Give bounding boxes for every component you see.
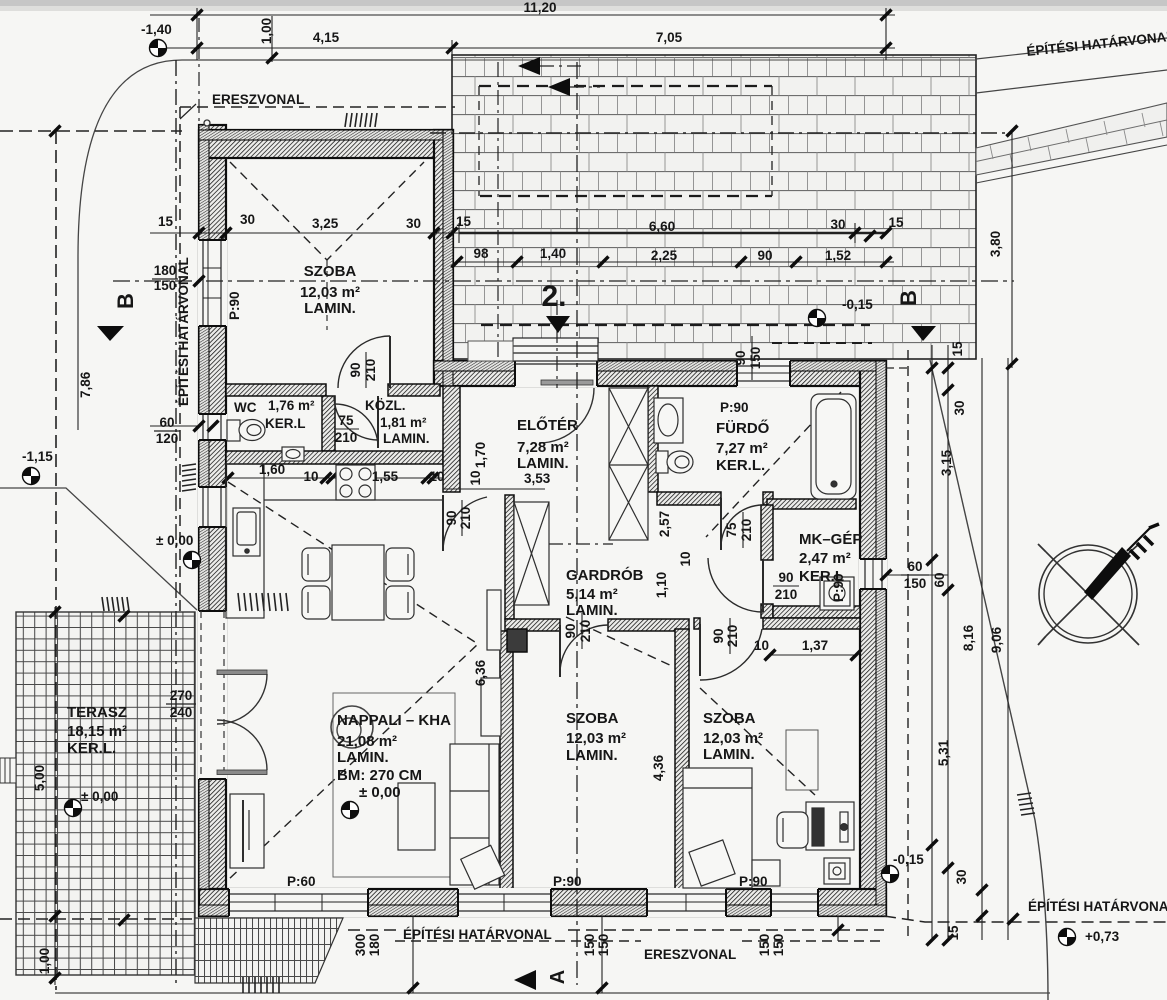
svg-text:15: 15 (946, 925, 961, 941)
svg-text:6,36: 6,36 (473, 659, 488, 686)
hall / MK-GEP wall (761, 505, 773, 560)
main top wall (434, 361, 886, 386)
top chain 11,20 (150, 14, 895, 16)
MK-GEP bottom wall (773, 606, 860, 618)
building limit line left (dash-dot) (175, 60, 177, 985)
szoba3 (765, 650, 776, 661)
svg-text:1,37: 1,37 (802, 638, 828, 653)
svg-text:150: 150 (154, 278, 177, 293)
svg-text:+0,73: +0,73 (1085, 929, 1120, 944)
y=233 chain (194, 228, 205, 239)
svg-text:210: 210 (458, 507, 473, 530)
svg-text:± 0,00: ± 0,00 (359, 784, 401, 801)
A marker bottom (514, 970, 536, 990)
roof dashed lines (228, 162, 841, 880)
svg-text:150: 150 (757, 934, 772, 957)
sofa (450, 744, 499, 885)
svg-text:KÖZL.: KÖZL. (365, 398, 406, 413)
ELOTER / FURDO wall (648, 386, 658, 492)
svg-text:15: 15 (456, 214, 472, 229)
svg-text:10: 10 (678, 551, 693, 566)
bottom (597, 983, 608, 994)
svg-text:150: 150 (904, 576, 927, 591)
svg-text:KER.L.: KER.L. (67, 740, 116, 757)
svg-text:LAMIN.: LAMIN. (566, 747, 618, 764)
bottom wall: living room window P:60 (229, 888, 368, 917)
kitchen counter dim (228, 477, 443, 479)
y=262 chain (452, 257, 463, 268)
door szoba1 (90/210) (389, 336, 391, 388)
entrance steps bottom (195, 918, 343, 983)
eaves right (907, 350, 909, 941)
svg-text:15: 15 (888, 215, 904, 230)
right chains (1007, 126, 1018, 137)
svg-text:± 0,00: ± 0,00 (156, 533, 193, 548)
svg-text:1,00: 1,00 (37, 948, 52, 974)
bottom long line (55, 992, 1050, 994)
szoba3 desk + chair (806, 802, 854, 850)
svg-text:60: 60 (159, 415, 174, 430)
hall bottom wall (szoba3 top) (694, 618, 700, 629)
svg-text:210: 210 (725, 625, 740, 648)
exterior wall insulation bands (199, 125, 886, 916)
svg-text:10: 10 (754, 638, 769, 653)
right wall: MK-GEP window 60/150 (859, 559, 887, 589)
east site boundary (930, 360, 1048, 1000)
left vertical: 5,00/1,00 terrace (54, 607, 56, 985)
terrace (50, 607, 61, 618)
svg-text:P:90: P:90 (553, 874, 582, 889)
svg-text:30: 30 (830, 217, 845, 232)
svg-text:2.: 2. (541, 280, 566, 313)
svg-text:75: 75 (724, 522, 739, 538)
1,37 dim in szoba3 (770, 654, 856, 656)
svg-text:LAMIN.: LAMIN. (703, 746, 755, 763)
svg-text:MK–GÉP: MK–GÉP (799, 531, 862, 548)
bottom wall: szoba2 window (458, 888, 551, 917)
bottom wall: szoba3 window 2 (771, 888, 818, 917)
svg-text:SZOBA: SZOBA (566, 710, 619, 727)
svg-text:5,31: 5,31 (936, 739, 951, 766)
svg-text:SZOBA: SZOBA (304, 263, 357, 280)
partition szoba1 / WC+KOZL (226, 384, 326, 396)
svg-text:12,03 m²: 12,03 m² (300, 284, 360, 301)
top wall of szoba1 (199, 130, 453, 158)
svg-text:10: 10 (429, 469, 444, 484)
left exterior wall (199, 125, 226, 889)
svg-text:1,00: 1,00 (259, 18, 274, 44)
svg-text:NAPPALI – KHA: NAPPALI – KHA (337, 712, 451, 729)
kitchen top counter line (264, 499, 443, 501)
TV unit (230, 794, 264, 868)
svg-text:210: 210 (578, 620, 593, 643)
kitchen partition (226, 451, 443, 464)
svg-text:1,60: 1,60 (259, 462, 285, 477)
szoba2 left wall (500, 631, 513, 889)
door szoba3 (90/210) (699, 624, 701, 676)
svg-text:180: 180 (154, 263, 177, 278)
svg-text:12,03 m²: 12,03 m² (566, 730, 626, 747)
svg-text:60: 60 (907, 559, 922, 574)
svg-text:90: 90 (348, 362, 363, 377)
door KOZL->NAPPALI (90/210) at x443 wall (446, 495, 448, 550)
section line A-A vertical (576, 62, 578, 985)
svg-text:150: 150 (582, 934, 597, 957)
svg-text:LAMIN.: LAMIN. (517, 455, 569, 472)
svg-text:4,15: 4,15 (313, 30, 340, 45)
svg-text:LAMIN.: LAMIN. (304, 300, 356, 317)
szoba1 + brick dim line y=233 (150, 232, 475, 234)
svg-text:1,55: 1,55 (372, 469, 399, 484)
svg-text:30: 30 (954, 869, 969, 884)
svg-text:1,70: 1,70 (473, 442, 488, 468)
szoba1 left window dims (194, 276, 205, 287)
svg-text:1,76 m²: 1,76 m² (268, 398, 315, 413)
right wall of szoba1 (434, 130, 453, 386)
svg-text:90: 90 (711, 628, 726, 643)
door WC (75/210) (335, 399, 376, 401)
svg-text:P:90: P:90 (831, 573, 846, 602)
svg-text:240: 240 (170, 705, 193, 720)
svg-text:GARDRÓB: GARDRÓB (566, 566, 644, 584)
section line B-B horizontal (113, 280, 1014, 282)
svg-text:30: 30 (240, 212, 255, 227)
brick area dashed overlays (479, 85, 772, 87)
szoba2 / szoba3 wall (675, 629, 689, 889)
door gardrob (90/210) (559, 625, 561, 677)
property bottom dashed (0, 918, 195, 920)
svg-text:90: 90 (778, 570, 793, 585)
svg-text:300: 300 (353, 934, 368, 957)
top wall: FURDO window 90/150 (737, 360, 790, 387)
GARDROB closet (X) (514, 502, 549, 605)
svg-text:10: 10 (468, 470, 483, 485)
svg-text:-1,15: -1,15 (22, 449, 53, 464)
svg-text:5,14 m²: 5,14 m² (566, 586, 618, 603)
svg-text:KER.L: KER.L (265, 416, 306, 431)
top wall: entrance door opening (515, 360, 597, 443)
svg-text:-1,40: -1,40 (141, 22, 172, 37)
svg-text:75: 75 (338, 413, 354, 428)
svg-text:2,25: 2,25 (651, 248, 678, 263)
FURDO bottom wall (657, 492, 721, 505)
FURDO bathtub (811, 394, 856, 499)
6,60 line small verticals (458, 223, 460, 243)
svg-text:7,86: 7,86 (78, 371, 93, 398)
gardrob bottom wall (505, 619, 560, 631)
svg-text:-0,15: -0,15 (893, 852, 924, 867)
terrace steps at left edge (0, 758, 16, 783)
eaves bottom (395, 940, 641, 942)
WC / KOZL wall (322, 396, 335, 451)
dark pier at gardrob corner (507, 629, 527, 652)
svg-text:ÉPÍTÉSI HATÁRVONAL: ÉPÍTÉSI HATÁRVONAL (1028, 899, 1167, 914)
svg-text:LAMIN.: LAMIN. (383, 431, 430, 446)
svg-text:2,57: 2,57 (657, 511, 672, 537)
carpet (333, 693, 455, 877)
svg-text:B: B (896, 290, 921, 306)
property boundary left (dashed) (0, 130, 182, 132)
svg-text:2,47 m²: 2,47 m² (799, 550, 851, 567)
road curve top left (78, 60, 452, 257)
svg-text:P:60: P:60 (287, 874, 316, 889)
svg-text:8,16: 8,16 (961, 624, 976, 651)
door MK-GEP (90/210) (709, 559, 761, 561)
szoba3 small box top (786, 730, 818, 790)
svg-text:P:90: P:90 (739, 874, 768, 889)
KOZL / ELOTER wall (443, 386, 460, 492)
side shelf above sofa (481, 678, 501, 736)
svg-text:1,52: 1,52 (825, 248, 851, 263)
top right street lines (976, 38, 1167, 59)
svg-text:90: 90 (444, 510, 459, 525)
svg-text:150: 150 (748, 347, 763, 370)
svg-text:10: 10 (303, 469, 318, 484)
door furdo (75/210) (720, 498, 722, 550)
bottom wall: szoba3 window (647, 888, 726, 917)
szoba1 window dims (150, 280, 199, 282)
szoba3 bed (683, 768, 752, 888)
svg-text:7,28 m²: 7,28 m² (517, 439, 569, 456)
ELOTER closet (X) (609, 388, 648, 540)
dining table (332, 545, 384, 620)
fireplace (331, 706, 373, 748)
WC small sink (282, 447, 304, 461)
svg-text:6,60: 6,60 (649, 219, 675, 234)
svg-text:KER.L.: KER.L. (716, 457, 765, 474)
svg-text:150: 150 (771, 934, 786, 957)
svg-text:210: 210 (775, 587, 798, 602)
left wall: kitchen window (198, 487, 227, 527)
svg-text:9,06: 9,06 (989, 626, 1004, 653)
svg-text:BM: 270 CM: BM: 270 CM (337, 767, 422, 784)
left wall: WC window 60/120 (198, 414, 227, 440)
svg-text:7,05: 7,05 (656, 30, 683, 45)
szoba3 night table with lamp (824, 858, 850, 884)
svg-text:21,08 m²: 21,08 m² (337, 733, 397, 750)
svg-text:30: 30 (952, 400, 967, 415)
svg-text:P:90: P:90 (227, 291, 242, 320)
3,80 vertical right (1011, 131, 1013, 368)
second brick dim y=262 (457, 261, 894, 263)
svg-text:ELŐTÉR: ELŐTÉR (517, 416, 578, 434)
svg-text:18,15 m²: 18,15 m² (67, 723, 127, 740)
svg-text:LAMIN.: LAMIN. (566, 602, 618, 619)
svg-text:7,27 m²: 7,27 m² (716, 440, 768, 457)
svg-text:1,10: 1,10 (654, 572, 669, 598)
svg-text:3,15: 3,15 (939, 449, 954, 476)
left wall: szoba1 window 180/150 (198, 240, 227, 326)
left wall: terrace double door 270/240 (198, 611, 267, 779)
kitchen chain (223, 473, 234, 484)
svg-text:90: 90 (757, 248, 772, 263)
eloter dim (443, 488, 545, 490)
svg-text:3,80: 3,80 (988, 231, 1003, 257)
svg-text:98: 98 (473, 246, 489, 261)
svg-text:WC: WC (234, 400, 257, 415)
svg-text:FÜRDŐ: FÜRDŐ (716, 419, 770, 437)
svg-text:A: A (547, 970, 569, 984)
svg-text:180: 180 (367, 934, 382, 957)
svg-text:120: 120 (156, 431, 179, 446)
bottom exterior wall (199, 889, 886, 916)
svg-text:30: 30 (406, 216, 421, 231)
svg-text:150: 150 (596, 934, 611, 957)
svg-text:15: 15 (950, 341, 965, 357)
svg-text:ERESZVONAL: ERESZVONAL (644, 947, 736, 962)
FURDO toilet (656, 451, 668, 473)
svg-text:210: 210 (335, 430, 358, 445)
svg-text:ERESZVONAL: ERESZVONAL (212, 92, 304, 107)
coffee table (398, 783, 435, 850)
svg-text:LAMIN.: LAMIN. (337, 749, 389, 766)
svg-text:1,40: 1,40 (540, 246, 566, 261)
svg-text:210: 210 (363, 359, 378, 382)
svg-text:SZOBA: SZOBA (703, 710, 756, 727)
svg-text:15: 15 (158, 214, 174, 229)
WC toilet (227, 420, 240, 441)
svg-text:ÉPÍTÉSI HATÁRVONAL: ÉPÍTÉSI HATÁRVONAL (403, 927, 552, 942)
right exterior wall (860, 361, 886, 916)
bottom of house dims verticals (601, 916, 603, 993)
svg-text:90: 90 (563, 623, 578, 638)
svg-text:ÉPÍTÉSI HATÁRVONAL: ÉPÍTÉSI HATÁRVONAL (176, 257, 191, 406)
gardrob left wall (505, 495, 514, 619)
svg-text:11,20: 11,20 (523, 0, 556, 15)
svg-text:270: 270 (170, 688, 193, 703)
svg-text:B: B (113, 293, 138, 309)
svg-text:5,00: 5,00 (32, 765, 47, 791)
kitchen counter left (226, 464, 264, 618)
svg-text:-0,15: -0,15 (842, 297, 873, 312)
svg-text:1,81 m²: 1,81 m² (380, 415, 427, 430)
FURDO / MK-GEP wall (767, 499, 856, 509)
svg-text:3,53: 3,53 (524, 471, 551, 486)
FURDO washbasin (654, 398, 683, 443)
svg-text:90: 90 (733, 350, 748, 365)
svg-text:210: 210 (739, 519, 754, 542)
svg-text:TERASZ: TERASZ (67, 704, 127, 721)
MK-GEP washer (820, 577, 854, 610)
svg-text:± 0,00: ± 0,00 (81, 789, 118, 804)
vertical axis through brick (497, 62, 499, 360)
svg-text:60: 60 (932, 572, 947, 587)
svg-text:4,36: 4,36 (651, 754, 666, 781)
right vertical chains (931, 345, 933, 940)
svg-text:12,03 m²: 12,03 m² (703, 730, 763, 747)
svg-text:P:90: P:90 (720, 400, 749, 415)
svg-text:3,25: 3,25 (312, 216, 339, 231)
stove (336, 465, 375, 500)
